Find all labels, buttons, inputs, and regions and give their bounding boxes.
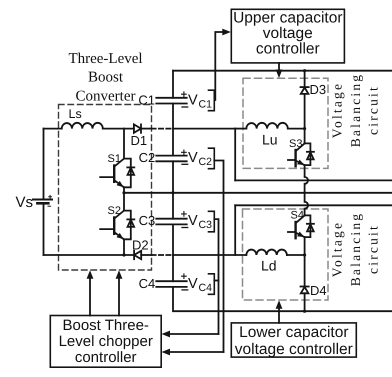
svg-text:circuit: circuit: [365, 224, 380, 274]
label VC4 with sense bracket: [188, 274, 214, 295]
svg-text:voltage controller: voltage controller: [235, 341, 353, 358]
transistor S1 (IGBT): [100, 129, 134, 188]
transistor S4 (IGBT): [288, 215, 314, 238]
wire: S4 emitter to Ld junction: [304, 237, 306, 255]
wire: S3 emitter down with hop over rail 181: [305, 165, 308, 193]
wire: left rail Vs- down: [43, 203, 45, 255]
svg-text:Balancing: Balancing: [348, 212, 363, 287]
label VC1 with sense bracket: [188, 90, 214, 111]
junction dot S1/S2 midpoint: [122, 191, 125, 194]
box: upper capacitor voltage controller: [231, 9, 344, 63]
junction dot S4/D4/Ld: [303, 253, 306, 256]
dashed box: upper voltage balancing circuit: [243, 78, 328, 168]
wire: jog vertical C1/C2 node down to mid rail A: [234, 129, 236, 181]
wire: VC3 sense down: [214, 219, 218, 334]
svg-text:Vs: Vs: [16, 194, 34, 211]
inductor Lu: [246, 123, 287, 129]
wire: bus segment C3 to C4: [172, 224, 174, 281]
wire: top rail from capacitor bus to right edge: [173, 70, 392, 72]
box text: lower capacitor voltage controller: [235, 324, 353, 358]
box: boost three-level chopper controller: [50, 316, 161, 368]
diode D2 (points left): [134, 251, 141, 259]
rotated label: lower voltage balancing circuit: [330, 212, 381, 287]
wire: S3/S4 link down with hop over rail 205.5: [305, 193, 308, 216]
diode D4 (points up): [301, 255, 309, 311]
svg-text:Boost: Boost: [88, 70, 124, 86]
svg-text:D1: D1: [131, 133, 148, 148]
junction dot D3 top rail: [303, 69, 306, 72]
wire: jog vertical down to C3/C4 node: [234, 205, 236, 255]
wire: rail C3/C4 jog to right edge: [235, 204, 392, 206]
svg-text:D4: D4: [310, 283, 327, 298]
battery Vs: [33, 195, 52, 206]
svg-text:controller: controller: [75, 349, 137, 366]
wire: bus segment C1 to C2: [172, 104, 174, 156]
wire+arrow: lower controller output up to balancing box: [276, 300, 283, 323]
svg-text:Level chopper: Level chopper: [59, 333, 153, 350]
wire: bus bottom segment and bottom rail to right edge: [173, 287, 392, 311]
svg-text:Converter: Converter: [76, 89, 136, 105]
wire: VC2 sense down: [214, 161, 223, 353]
wire: bottom return rail from Vs- to D2: [44, 254, 135, 256]
diode D1 (points right): [134, 124, 141, 132]
capacitor C1: [156, 92, 187, 107]
svg-text:Voltage: Voltage: [330, 221, 345, 277]
svg-text:Boost Three-: Boost Three-: [62, 317, 148, 334]
svg-text:C1: C1: [138, 92, 155, 107]
diode D3 (points up): [301, 71, 309, 144]
dashed box: lower voltage balancing circuit: [243, 209, 329, 300]
svg-text:Lu: Lu: [262, 132, 278, 148]
wire: Ld to S4/D4 junction: [287, 254, 305, 256]
svg-text:C2: C2: [139, 150, 156, 165]
wire: bus to jog vertical (C1/C2 node): [173, 128, 235, 130]
wire: dashed segment from boost box edge to bus: [152, 128, 174, 130]
svg-text:voltage: voltage: [263, 25, 313, 42]
junction dot Lu/D3/S3: [303, 127, 306, 130]
box: lower capacitor voltage controller: [231, 323, 356, 357]
transistor S2 (IGBT): [100, 193, 134, 240]
wire: Ls to node A to D1: [103, 128, 134, 130]
svg-text:C1: C1: [199, 98, 213, 110]
wire: S1 emitter to midpoint junction: [123, 187, 125, 193]
svg-text:D3: D3: [310, 82, 327, 97]
svg-text:Voltage: Voltage: [330, 82, 345, 138]
svg-text:S1: S1: [108, 153, 121, 165]
capacitor C4: [156, 274, 187, 290]
wire: dashed segment D2 to bus: [152, 254, 174, 256]
wire: bus to jog (C3/C4 node) to Ld: [173, 254, 246, 256]
wire+arrow: boost controller gate drive 2: [116, 270, 123, 315]
svg-text:C3: C3: [199, 219, 213, 231]
wire+arrow: sense into boost controller input 2: [162, 349, 224, 356]
svg-text:V: V: [188, 92, 198, 108]
svg-text:D2: D2: [132, 238, 149, 253]
label VC2 with sense bracket: [188, 148, 214, 169]
svg-text:Balancing: Balancing: [348, 73, 363, 148]
svg-text:V: V: [188, 213, 198, 229]
svg-text:C4: C4: [199, 282, 213, 294]
box text: upper capacitor voltage controller: [233, 10, 342, 58]
title: Three-Level Boost Converter: [68, 51, 142, 105]
svg-text:Upper capacitor: Upper capacitor: [233, 10, 342, 27]
svg-text:S2: S2: [108, 205, 121, 217]
wire: Lu to D3/S3 junction: [288, 128, 305, 130]
svg-text:Ld: Ld: [261, 258, 277, 274]
label VC3 with sense bracket: [188, 211, 214, 232]
wire+arrow: upper controller output to balancing box: [276, 63, 283, 78]
capacitor C3: [156, 212, 187, 228]
capacitor C2: [156, 150, 187, 164]
wire: capacitor bus top segment: [172, 71, 174, 98]
wire: VC4 sense joining: [214, 280, 218, 282]
svg-text:C4: C4: [139, 276, 156, 291]
wire: mid rail C2/C3 node from switch midpoint to right edge: [124, 192, 392, 194]
svg-text:controller: controller: [256, 41, 320, 58]
wire: rail from jog to right edge (C1/C2 potential): [235, 179, 392, 181]
wire: S2 emitter to bottom rail: [123, 239, 125, 255]
svg-text:circuit: circuit: [365, 85, 380, 135]
wire: left rail Vs+ up: [43, 129, 45, 200]
wire: node-A rail (Vs+ through Ls, D1 to bus and Lu to S3 junction): [44, 128, 62, 130]
inductor Ld: [246, 250, 287, 255]
junction dot bus mid rail: [171, 191, 174, 194]
dashed box: three-level boost converter: [59, 105, 152, 271]
svg-text:Lower capacitor: Lower capacitor: [239, 324, 348, 341]
junction dot D4 bottom rail: [303, 310, 306, 313]
box text: boost three-level chopper controller: [59, 317, 153, 366]
svg-text:C3: C3: [139, 213, 156, 228]
svg-text:C2: C2: [199, 156, 213, 168]
wire: bus segment C2 to C3: [172, 161, 174, 218]
wire: C1/C2 node to Lu: [235, 128, 246, 130]
junction dot S2/bottom rail: [122, 253, 125, 256]
svg-text:V: V: [188, 276, 198, 292]
wire: D2 to boost box edge: [141, 254, 151, 256]
transistor S3 (IGBT): [288, 143, 314, 166]
rotated label: upper voltage balancing circuit: [330, 73, 381, 148]
wire+arrow: boost controller gate drive 1: [87, 270, 94, 315]
svg-text:V: V: [188, 150, 198, 166]
wire: D1 to dashed-box edge: [141, 128, 152, 130]
svg-text:S3: S3: [289, 138, 302, 150]
inductor Ls: [62, 123, 103, 129]
svg-text:Ls: Ls: [69, 107, 82, 121]
wire+arrow: sense into boost controller input 1: [162, 331, 219, 338]
svg-text:S4: S4: [291, 210, 304, 222]
wire: VC1 sense to upper controller with arrow: [215, 29, 231, 100]
svg-text:Three-Level: Three-Level: [68, 51, 142, 67]
